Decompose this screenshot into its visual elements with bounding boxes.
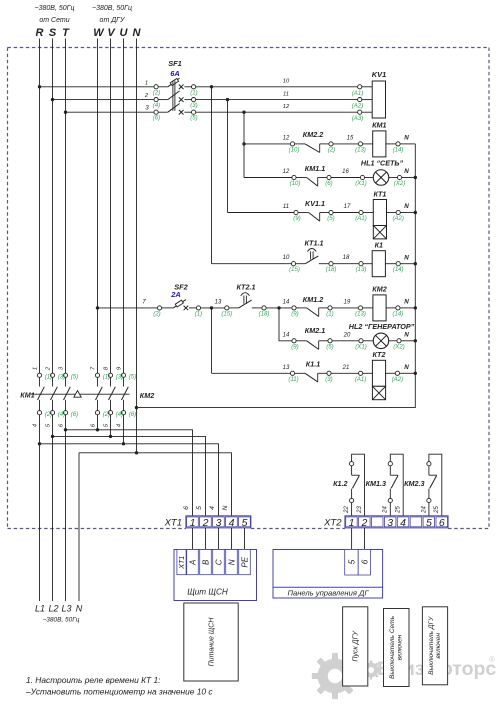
svg-text:2: 2 [360,517,367,529]
svg-text:(2): (2) [153,90,160,96]
svg-text:(6): (6) [129,412,136,418]
svg-text:(4): (4) [116,412,123,418]
svg-text:L1: L1 [35,604,45,614]
svg-text:11: 11 [283,91,289,97]
svg-text:КТ2: КТ2 [373,350,386,359]
svg-text:Щит ЩСН: Щит ЩСН [187,588,228,597]
svg-text:К1: К1 [375,241,383,250]
svg-text:(2): (2) [328,147,335,153]
svg-text:(15): (15) [289,267,300,273]
svg-text:18: 18 [343,255,350,261]
svg-text:5: 5 [196,506,203,510]
svg-text:Питание ЩСН: Питание ЩСН [208,617,215,667]
svg-text:(X2): (X2) [393,344,404,350]
svg-text:4: 4 [209,506,216,510]
svg-text:(3): (3) [116,375,123,381]
svg-text:КМ2: КМ2 [372,285,386,294]
svg-text:(15): (15) [221,312,232,318]
svg-text:16: 16 [342,169,349,175]
svg-text:(А1): (А1) [352,91,363,97]
svg-text:К1.1: К1.1 [306,360,320,369]
svg-text:N: N [404,299,409,306]
svg-text:(X1): (X1) [355,181,366,187]
svg-text:КМ2.3: КМ2.3 [404,479,424,488]
svg-text:КМ2.2: КМ2.2 [303,130,323,139]
svg-text:КМ1: КМ1 [372,121,386,130]
svg-text:РЕ: РЕ [240,556,249,567]
svg-text:КМ1.3: КМ1.3 [366,479,386,488]
svg-text:3: 3 [387,517,393,529]
svg-text:(А1): (А1) [355,216,366,222]
svg-text:К1.2: К1.2 [333,479,347,488]
svg-text:(2): (2) [103,412,110,418]
svg-text:(3): (3) [58,375,65,381]
svg-text:R: R [36,27,44,39]
svg-text:(4): (4) [58,412,65,418]
svg-text:2: 2 [202,517,209,529]
svg-text:24: 24 [383,506,389,514]
svg-text:(10): (10) [289,147,300,153]
svg-text:КМ2: КМ2 [140,391,154,400]
svg-text:Выключатель Сеть: Выключатель Сеть [389,615,396,679]
svg-text:L2: L2 [48,604,58,614]
svg-text:(6): (6) [153,116,160,122]
svg-text:(А2): (А2) [392,377,403,383]
svg-text:(А1): (А1) [355,377,366,383]
svg-text:6: 6 [360,559,370,564]
svg-text:(5): (5) [129,375,136,381]
svg-text:®: ® [489,655,495,664]
svg-text:КТ2.1: КТ2.1 [237,283,256,292]
svg-text:1. Настроить реле времени КТ: 1. Настроить реле времени КТ 1: [26,675,160,685]
svg-text:4: 4 [116,424,122,427]
svg-text:С: С [214,559,223,565]
svg-text:23: 23 [357,506,363,514]
svg-text:–Установить потенциометр на зн: –Установить потенциометр на значение 10 … [25,687,213,697]
svg-text:(5): (5) [71,375,78,381]
svg-text:(6): (6) [71,412,78,418]
svg-text:KV1.1: KV1.1 [305,199,325,208]
svg-text:25: 25 [396,506,402,514]
svg-text:КТ1.1: КТ1.1 [305,239,324,248]
svg-text:4: 4 [229,517,235,529]
svg-text:~380В, 50Гц: ~380В, 50Гц [92,5,132,12]
svg-text:(1): (1) [103,375,110,381]
svg-text:22: 22 [344,506,350,514]
svg-text:12: 12 [283,104,290,110]
svg-text:(4): (4) [153,103,160,109]
svg-text:6: 6 [183,506,190,510]
svg-text:(13): (13) [355,147,366,153]
svg-text:(А3): (А3) [352,116,363,122]
svg-text:(2): (2) [153,312,160,318]
svg-text:12: 12 [283,169,290,175]
svg-text:10: 10 [283,79,290,85]
svg-text:13: 13 [283,365,290,371]
svg-text:20: 20 [343,332,351,338]
svg-text:14: 14 [283,300,290,306]
svg-text:SF1: SF1 [168,59,182,68]
svg-text:KV1: KV1 [372,70,386,79]
svg-text:11: 11 [283,204,289,210]
svg-text:6А: 6А [170,69,179,78]
svg-text:15: 15 [347,135,354,141]
svg-text:(5): (5) [190,116,197,122]
svg-text:N: N [404,168,409,175]
svg-text:N: N [222,505,229,510]
svg-text:25: 25 [434,506,440,514]
svg-text:1: 1 [32,367,38,370]
svg-text:(А2): (А2) [352,104,363,110]
svg-text:(X2): (X2) [394,181,405,187]
svg-text:17: 17 [344,204,351,210]
svg-text:L3: L3 [61,604,71,614]
svg-text:10: 10 [283,255,290,261]
svg-text:(X1): (X1) [355,344,366,350]
svg-text:4: 4 [32,424,38,427]
svg-text:N: N [404,331,409,338]
svg-text:1: 1 [349,517,355,529]
svg-text:включен: включен [396,634,403,660]
svg-text:(5): (5) [326,344,333,350]
svg-text:КТ1: КТ1 [373,189,386,198]
svg-text:(3): (3) [325,377,332,383]
svg-text:5: 5 [242,517,248,529]
svg-text:(14): (14) [393,267,404,273]
svg-text:24: 24 [421,506,427,514]
svg-text:N: N [133,27,142,39]
svg-text:(11): (11) [288,377,298,383]
svg-text:19: 19 [344,300,351,306]
svg-text:N: N [76,604,83,614]
svg-text:(1): (1) [45,375,52,381]
svg-text:Пуск ДГУ: Пуск ДГУ [353,630,360,662]
svg-text:~380В, 50Гц: ~380В, 50Гц [35,5,75,12]
svg-text:КМ1: КМ1 [20,391,34,400]
svg-text:(1): (1) [195,312,202,318]
svg-text:14: 14 [283,332,290,338]
svg-text:В: В [201,559,210,565]
svg-text:(9): (9) [291,344,298,350]
svg-text:(А2): (А2) [392,216,403,222]
svg-text:Выключатель ДГУ: Выключатель ДГУ [428,616,435,675]
svg-text:(13): (13) [356,267,367,273]
svg-text:КМ1.1: КМ1.1 [305,164,325,173]
svg-text:(6): (6) [325,181,332,187]
svg-text:1: 1 [145,80,148,86]
svg-text:U: U [120,27,129,39]
svg-text:21: 21 [342,365,350,371]
svg-text:6: 6 [439,517,445,529]
svg-text:HL2 “ГЕНЕРАТОР”: HL2 “ГЕНЕРАТОР” [349,322,415,331]
svg-text:N: N [404,203,409,210]
svg-text:N: N [404,135,409,142]
svg-text:4: 4 [400,517,406,529]
svg-text:N: N [227,559,236,565]
svg-text:КМ1.2: КМ1.2 [303,295,323,304]
svg-text:(1): (1) [326,312,333,318]
svg-text:КМ2.1: КМ2.1 [305,326,325,335]
svg-text:(5): (5) [327,216,334,222]
svg-text:(14): (14) [393,312,404,318]
svg-text:(18): (18) [326,267,337,273]
svg-text:(18): (18) [259,312,270,318]
svg-text:5: 5 [426,517,432,529]
svg-text:(3): (3) [190,103,197,109]
svg-text:ХТ1: ХТ1 [164,518,182,529]
svg-text:N: N [404,364,409,371]
svg-text:(9): (9) [291,312,298,318]
svg-text:ХТ1: ХТ1 [179,556,186,570]
svg-text:2А: 2А [170,290,180,299]
svg-text:(1): (1) [190,90,197,96]
svg-text:ХТ2: ХТ2 [323,518,342,529]
svg-text:W: W [93,27,105,39]
svg-text:включен: включен [435,633,442,659]
svg-text:от ДГУ: от ДГУ [100,17,126,24]
svg-text:Панель управления ДГ: Панель управления ДГ [288,589,370,598]
svg-text:N: N [404,254,409,261]
svg-text:S: S [49,27,57,39]
svg-text:1: 1 [190,517,196,529]
svg-text:(13): (13) [355,312,366,318]
svg-text:от Сети: от Сети [39,17,69,24]
svg-text:12: 12 [283,135,290,141]
svg-text:5: 5 [347,559,357,564]
svg-text:(2): (2) [45,412,52,418]
svg-text:А: А [188,560,197,566]
svg-text:HL1 “СЕТЬ”: HL1 “СЕТЬ” [361,158,404,167]
svg-text:(10): (10) [290,181,301,187]
svg-text:~380В, 50Гц: ~380В, 50Гц [42,617,79,624]
svg-text:(9): (9) [293,216,300,222]
svg-text:13: 13 [215,300,222,306]
svg-text:3: 3 [216,517,222,529]
svg-text:(14): (14) [393,147,404,153]
